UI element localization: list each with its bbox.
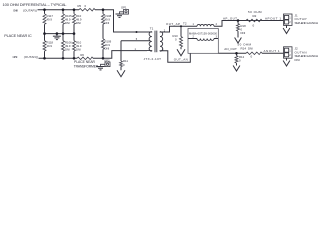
svg-text:1: 1 [193, 23, 195, 26]
svg-text:DNI: DNI [105, 21, 110, 25]
svg-text:0: 0 [85, 4, 87, 8]
svg-text:DNI: DNI [295, 58, 300, 62]
svg-text:(OUTAN)]: (OUTAN)] [24, 55, 38, 59]
svg-text:DNI: DNI [65, 47, 70, 51]
svg-text:SMA END LAUNCH: SMA END LAUNCH [295, 21, 319, 25]
svg-text:R2: R2 [253, 14, 257, 18]
svg-text:T1: T1 [150, 26, 154, 30]
svg-text:APOUT 1: APOUT 1 [265, 16, 281, 20]
svg-text:AN_OUT: AN_OUT [224, 47, 237, 51]
svg-text:0: 0 [175, 38, 177, 42]
svg-text:0: 0 [251, 55, 253, 59]
svg-text:4: 4 [216, 23, 218, 26]
svg-text:GP2: GP2 [104, 58, 110, 62]
svg-text:GH9: GH9 [13, 55, 18, 59]
svg-text:1: 1 [289, 16, 291, 20]
svg-text:DNI: DNI [241, 31, 246, 35]
svg-text:2: 2 [289, 20, 291, 24]
svg-text:AP_OUT: AP_OUT [223, 17, 237, 21]
svg-text:49.9: 49.9 [47, 44, 53, 48]
svg-text:0: 0 [253, 24, 255, 28]
svg-text:PLACE NEAR IC: PLACE NEAR IC [4, 34, 32, 38]
svg-text:R14: R14 [241, 46, 247, 50]
svg-text:JTX-2-10T: JTX-2-10T [144, 57, 162, 61]
svg-text:R6: R6 [80, 53, 84, 57]
svg-text:GP1: GP1 [121, 5, 127, 9]
svg-text:(OUTAP)]: (OUTAP)] [23, 9, 37, 13]
svg-text:OUT_AP: OUT_AP [166, 22, 180, 26]
svg-text:DNI: DNI [105, 46, 110, 50]
svg-text:T2: T2 [183, 22, 187, 26]
svg-text:ANOUT 1: ANOUT 1 [264, 49, 280, 53]
svg-text:DNI: DNI [248, 46, 253, 50]
svg-text:DNI: DNI [76, 47, 81, 51]
svg-text:49.9: 49.9 [47, 18, 53, 22]
svg-text:DNI: DNI [65, 21, 70, 25]
svg-text:100 OHM DIFFERENTIAL – TYPICAL: 100 OHM DIFFERENTIAL – TYPICAL [3, 2, 68, 7]
svg-text:OUT_AN: OUT_AN [174, 57, 188, 61]
svg-text:DNI: DNI [76, 21, 81, 25]
svg-text:R5: R5 [78, 4, 82, 8]
svg-text:2: 2 [289, 53, 291, 57]
svg-text:TRANSFORMER: TRANSFORMER [74, 65, 99, 69]
svg-text:GH8: GH8 [13, 9, 18, 13]
svg-text:0: 0 [123, 63, 125, 67]
svg-text:1: 1 [289, 48, 291, 52]
